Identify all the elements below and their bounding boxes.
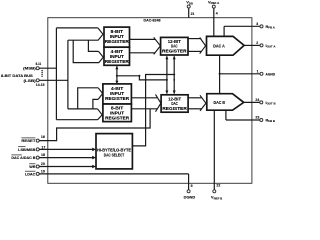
- wire ctrl net2 select: [132, 75, 174, 146]
- svg-text:REGISTER: REGISTER: [105, 39, 130, 44]
- svg-text:24: 24: [255, 98, 259, 102]
- register RA 12-BIT DAC REGISTER: [161, 37, 188, 55]
- pin VREF A (4): [208, 0, 220, 36]
- pin LSB/MSB (17): [18, 145, 45, 152]
- wire B1 to RB: [131, 97, 157, 99]
- riser A2 lower: [73, 40, 98, 62]
- svg-text:2: 2: [256, 41, 258, 45]
- DAC register control rail 1: [165, 56, 168, 94]
- wire LSB/MSB to select: [39, 148, 96, 152]
- svg-text:IOUT B: IOUT B: [266, 101, 276, 106]
- pin DAC A/DAC B (18): [11, 153, 45, 160]
- DAC B: [207, 94, 244, 111]
- svg-text:REGISTER: REGISTER: [105, 96, 130, 101]
- svg-text:AGND: AGND: [266, 72, 276, 76]
- junction net2: [173, 74, 175, 81]
- wire DAC A/DAC B to select: [39, 156, 96, 160]
- svg-text:(LSB): (LSB): [24, 78, 37, 83]
- wire A1 lower feed: [68, 39, 98, 41]
- register B1 4-BIT INPUT REGISTER: [103, 84, 131, 104]
- svg-text:REGISTER: REGISTER: [162, 49, 187, 54]
- pin RFB B (23): [226, 110, 275, 123]
- svg-text:DAC-8248: DAC-8248: [144, 17, 162, 22]
- label 8-BIT DATA BUS: [1, 73, 33, 78]
- svg-text:WR: WR: [29, 164, 35, 169]
- bus arrow into RA: [154, 37, 161, 54]
- bus arrow into A2: [99, 51, 104, 63]
- wire RB to DAC B lo: [188, 108, 201, 110]
- AGND rail between DACs: [219, 55, 221, 93]
- riser B1 upper: [78, 88, 99, 109]
- pin VREF B (22): [211, 110, 222, 200]
- wire B2 upper feed: [68, 108, 98, 110]
- bus arrow into DAC A: [200, 38, 206, 54]
- bus arrow into DAC B: [200, 95, 206, 111]
- bus arrow into B2: [98, 109, 103, 120]
- bus arrow into B1: [98, 88, 102, 100]
- svg-text:REGISTER: REGISTER: [105, 115, 130, 120]
- svg-text:14-15: 14-15: [36, 83, 45, 87]
- pin RFB A (3): [224, 22, 276, 37]
- svg-text:(MSB): (MSB): [23, 66, 36, 71]
- wire WR to select: [39, 165, 96, 169]
- riser A2 upper: [88, 40, 98, 51]
- svg-text:VDD: VDD: [186, 0, 193, 6]
- riser B1 lower: [93, 99, 98, 109]
- svg-text:DAC A: DAC A: [213, 44, 225, 49]
- svg-text:REGISTER: REGISTER: [105, 59, 130, 64]
- pin 8-BIT DATA BUS LSB (14-15): [24, 78, 45, 87]
- chip outline: [48, 18, 252, 184]
- pin WR (20): [29, 162, 45, 169]
- svg-text:3: 3: [256, 22, 258, 26]
- junction net1: [166, 74, 168, 81]
- svg-text:4: 4: [216, 12, 218, 16]
- svg-text:RFB A: RFB A: [266, 25, 276, 30]
- svg-text:DGND: DGND: [184, 194, 196, 199]
- wire LDAC: [39, 173, 188, 175]
- wire RESET routing: [39, 109, 150, 141]
- svg-text:RFB B: RFB B: [266, 119, 276, 124]
- wire B2 to RB: [131, 108, 157, 110]
- svg-text:20: 20: [41, 162, 45, 166]
- svg-text:VREF B: VREF B: [211, 195, 222, 201]
- svg-text:16: 16: [41, 135, 45, 139]
- svg-text:19: 19: [41, 170, 45, 174]
- pin IOUT A (2): [244, 41, 276, 48]
- wire A1 to RA: [130, 38, 156, 40]
- block HI-BYTE/LO-BYTE DAC SELECT: [96, 134, 132, 169]
- DAC register control rail 2: [173, 56, 176, 94]
- input register control rail: [115, 66, 118, 84]
- svg-text:DAC A/DAC B: DAC A/DAC B: [11, 155, 35, 160]
- pin 8-BIT DATA BUS MSB (6-11): [23, 62, 41, 71]
- wire RB to DAC B hi: [188, 97, 201, 99]
- svg-text:17: 17: [41, 145, 45, 149]
- svg-text:DAC B: DAC B: [214, 100, 226, 105]
- wire RA to DAC A hi: [188, 38, 201, 40]
- wire A2 to RA: [130, 52, 156, 54]
- svg-text:5: 5: [191, 184, 193, 188]
- label DAC-8248: [144, 17, 162, 22]
- wire B2 lower feed: [56, 119, 97, 121]
- svg-text:21: 21: [191, 12, 195, 16]
- svg-text:LDAC: LDAC: [25, 172, 36, 177]
- pin IOUT B (24): [244, 98, 276, 106]
- svg-text:LSB/MSB: LSB/MSB: [18, 147, 35, 152]
- bus continuation dots: [41, 70, 42, 77]
- svg-text:6-11: 6-11: [36, 62, 42, 66]
- svg-text:DAC SELECT: DAC SELECT: [104, 153, 125, 158]
- register A2 4-BIT INPUT REGISTER: [104, 47, 130, 65]
- svg-text:8-BIT DATA BUS: 8-BIT DATA BUS: [1, 73, 33, 78]
- svg-text:18: 18: [41, 153, 45, 157]
- wire MSB rail: [39, 28, 56, 120]
- svg-text:IOUT A: IOUT A: [266, 44, 277, 49]
- wire RA to DAC A lo: [188, 50, 201, 52]
- pin LDAC (19): [25, 170, 45, 177]
- pin VDD (21): [186, 0, 194, 18]
- bus arrow into RB: [156, 94, 161, 111]
- DAC A: [207, 36, 245, 55]
- svg-text:23: 23: [255, 116, 259, 120]
- svg-text:RESET: RESET: [21, 138, 36, 143]
- register B2 8-BIT INPUT REGISTER: [103, 104, 131, 122]
- register A1 8-BIT INPUT REGISTER: [104, 27, 130, 47]
- svg-text:VREF A: VREF A: [208, 0, 220, 5]
- pin RESET (16): [21, 135, 44, 143]
- wire A1 upper feed: [56, 27, 98, 29]
- pin DGND (5): [184, 174, 196, 200]
- svg-text:REGISTER: REGISTER: [162, 106, 187, 111]
- bus arrow into A1: [98, 28, 103, 41]
- register RB 12-BIT DAC REGISTER: [161, 95, 188, 112]
- pin AGND (1): [220, 69, 276, 76]
- wire ctrl net1: [117, 75, 167, 80]
- svg-text:1: 1: [257, 69, 259, 73]
- svg-text:22: 22: [216, 184, 220, 188]
- wire LSB rail: [39, 40, 68, 109]
